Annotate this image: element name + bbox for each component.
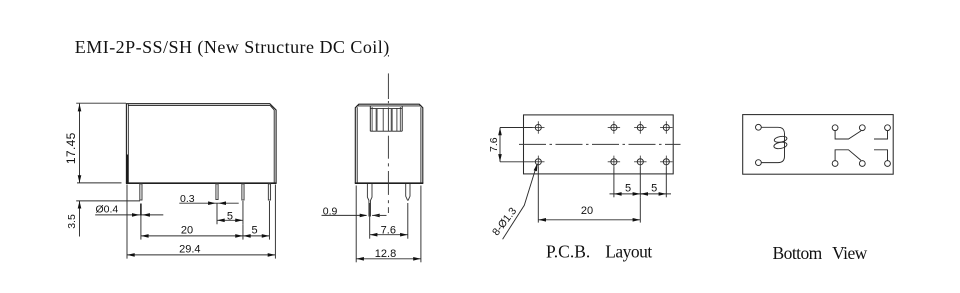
contact pin bottom-left (COM2)	[832, 161, 838, 167]
svg-text:8-Ø1.3: 8-Ø1.3	[490, 205, 519, 238]
dimension 17.45 (body height)	[64, 103, 126, 183]
svg-text:0.9: 0.9	[323, 205, 338, 217]
pcb hole A3 (top row)	[634, 121, 646, 133]
pcb dimension 7.6 (row pitch)	[488, 128, 533, 162]
svg-text:5: 5	[227, 210, 233, 222]
pcb hole B3 (bottom row)	[634, 156, 646, 168]
dimension 29.4 (overall width)	[127, 185, 275, 259]
svg-text:17.45: 17.45	[64, 132, 78, 164]
svg-text:EMI-2P-SS/SH (New Structure DC: EMI-2P-SS/SH (New Structure DC Coil)	[75, 37, 390, 58]
pcb hole A2 (top row)	[608, 121, 620, 133]
svg-text:Bottom: Bottom	[773, 243, 823, 263]
pcb layout board rectangle	[524, 115, 674, 174]
pcb layout centerline	[519, 143, 681, 145]
side view centerline	[387, 55, 389, 57]
front view pin 4	[268, 184, 270, 200]
coil pin top circle	[756, 124, 762, 130]
contact 1 NO stationary wire	[874, 131, 888, 139]
contact pin bottom-middle (NC2)	[859, 161, 865, 167]
svg-text:7.6: 7.6	[488, 137, 500, 152]
relay coil L1	[761, 127, 787, 162]
svg-text:12.8: 12.8	[375, 248, 396, 260]
pcb hole B4 (bottom row)	[660, 156, 672, 168]
svg-text:3.5: 3.5	[66, 214, 78, 229]
svg-text:29.4: 29.4	[179, 244, 200, 256]
pcb dimension 5 (holes A3-A4)	[640, 168, 671, 198]
side view top grille	[370, 106, 402, 131]
contact pin top-right (NO1)	[885, 125, 891, 131]
side view relay body outline	[355, 104, 424, 183]
dimension 0.9 (pin thickness side)	[322, 205, 387, 217]
svg-text:20: 20	[181, 225, 193, 237]
front view pin 2	[216, 184, 218, 200]
svg-text:7.6: 7.6	[381, 225, 396, 237]
dimension 0.3 (pin 2 thickness)	[179, 193, 238, 205]
svg-text:20: 20	[581, 205, 593, 217]
front view relay body outline	[126, 104, 277, 184]
dimension 3.5 (pin length)	[66, 201, 140, 237]
contact pin top-middle (NC1)	[859, 125, 865, 131]
dimension 5 (pin2-pin3 pitch)	[217, 201, 243, 224]
dimension 5 (pin3-pin4 pitch)	[243, 201, 270, 240]
dimension diameter 0.4 (pin thickness)	[95, 204, 163, 219]
contact 1 wire and movable arm	[835, 131, 861, 139]
dimension 20 (pin1-pin3 span)	[141, 219, 243, 240]
pcb dimension 5 (holes A2-A3)	[610, 168, 645, 198]
svg-text:Ø0.4: Ø0.4	[96, 204, 119, 216]
contact pin bottom-right (NO2)	[885, 161, 891, 167]
pcb dimension 20 (holes B1-B3)	[538, 168, 640, 223]
side view left pin	[367, 184, 372, 217]
svg-text:5: 5	[651, 183, 657, 195]
svg-text:5: 5	[252, 225, 258, 237]
front view pin 1	[140, 184, 142, 200]
pcb hole A1 (top row)	[532, 121, 544, 133]
svg-text:P.C.B.: P.C.B.	[546, 241, 590, 261]
dimension 12.8 (body width side)	[356, 186, 421, 263]
svg-text:Layout: Layout	[605, 241, 652, 261]
bottom view outline rectangle	[743, 115, 894, 175]
side view right pin	[406, 184, 410, 201]
front view pin 3	[242, 184, 244, 200]
svg-text:View: View	[832, 243, 868, 263]
pcb hole B2 (bottom row)	[608, 156, 620, 168]
pcb hole A4 (top row)	[660, 121, 672, 133]
contact 2 NO stationary wire	[874, 150, 888, 161]
pcb hole B1 (bottom row)	[532, 156, 544, 168]
svg-text:0.3: 0.3	[180, 193, 195, 205]
dimension 7.6 (pin pitch side)	[370, 203, 408, 239]
contact pin top-left (COM1)	[832, 125, 838, 131]
coil pin bottom circle	[756, 160, 762, 166]
svg-text:5: 5	[625, 183, 631, 195]
pcb hole callout 8-diam1.3 leader	[490, 163, 538, 239]
contact 2 wire and movable arm	[835, 150, 861, 161]
